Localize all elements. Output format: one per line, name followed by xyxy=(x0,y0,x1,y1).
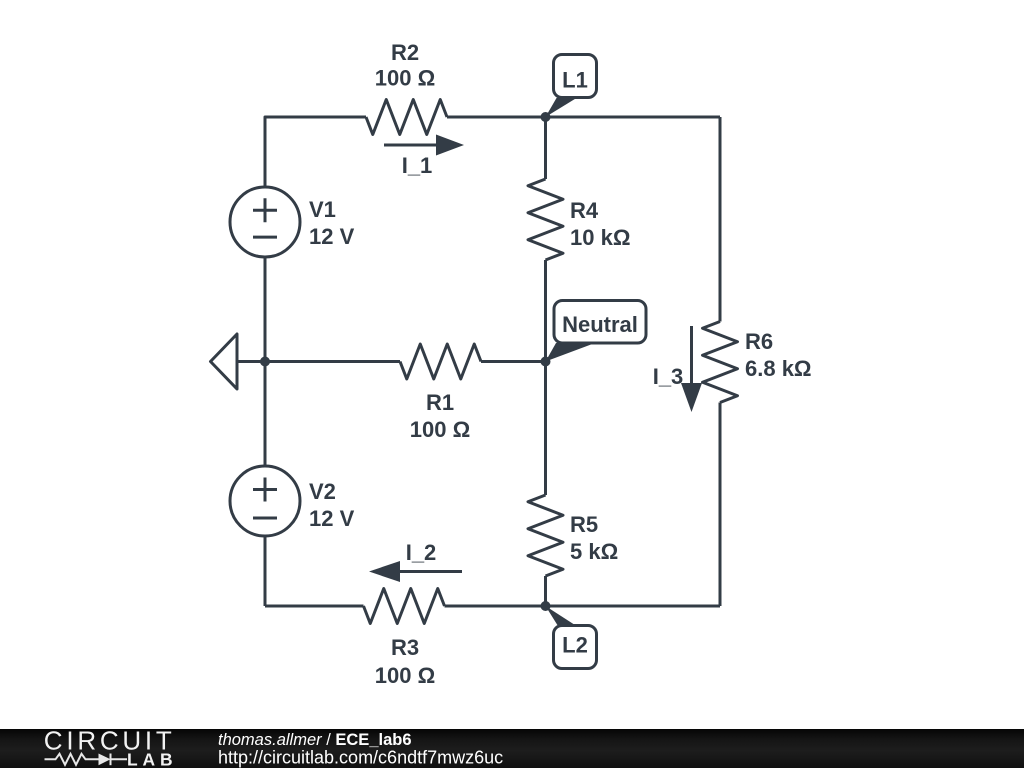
node ground xyxy=(260,357,270,367)
voltage source V1 xyxy=(230,187,300,257)
node L2 xyxy=(541,601,551,611)
svg-text:5 kΩ: 5 kΩ xyxy=(570,539,618,564)
svg-text:100 Ω: 100 Ω xyxy=(375,66,435,91)
svg-text:R1: R1 xyxy=(426,390,454,415)
svg-text:R4: R4 xyxy=(570,198,599,223)
voltage source V2 xyxy=(230,466,300,536)
CircuitLab logo squiggle resistor and diode xyxy=(45,754,128,766)
svg-text:12 V: 12 V xyxy=(309,506,355,531)
wire R5 to L2 node xyxy=(544,576,547,606)
resistor R4 xyxy=(528,179,563,260)
wire V2 bottom to bottom rail xyxy=(264,536,267,606)
current arrow I_1 xyxy=(384,144,436,147)
svg-text:Neutral: Neutral xyxy=(562,312,638,337)
node label L2 xyxy=(546,606,597,669)
svg-text:100 Ω: 100 Ω xyxy=(410,417,470,442)
resistor R1 xyxy=(400,344,481,379)
wire middle vertical upper xyxy=(544,117,547,179)
wire bottom right xyxy=(445,605,721,608)
svg-text:100 Ω: 100 Ω xyxy=(375,663,435,688)
wire R1 to Neutral node xyxy=(481,360,546,363)
svg-text:I_1: I_1 xyxy=(402,153,433,178)
wire bottom left xyxy=(265,605,364,608)
svg-text:10 kΩ: 10 kΩ xyxy=(570,225,630,250)
node label L1 xyxy=(546,55,597,118)
svg-text:L1: L1 xyxy=(562,68,588,93)
resistor R3 xyxy=(364,589,445,624)
svg-text:R6: R6 xyxy=(745,329,773,354)
svg-text:I_2: I_2 xyxy=(406,540,437,565)
svg-text:V2: V2 xyxy=(309,479,336,504)
wire left rail between V1 and V2 xyxy=(264,257,267,466)
svg-text:12 V: 12 V xyxy=(309,224,355,249)
svg-text:R3: R3 xyxy=(391,635,419,660)
svg-text:thomas.allmer / ECE_lab6: thomas.allmer / ECE_lab6 xyxy=(218,731,412,749)
wire R4 to Neutral node xyxy=(544,260,547,362)
resistor R5 xyxy=(528,495,563,576)
current arrow I_3 xyxy=(690,326,693,385)
wire top left from V1 to R2 xyxy=(265,117,366,187)
wire Neutral to R5 xyxy=(544,362,547,496)
svg-text:LAB: LAB xyxy=(127,749,173,768)
node label Neutral xyxy=(546,301,647,362)
svg-text:R5: R5 xyxy=(570,512,598,537)
svg-text:R2: R2 xyxy=(391,40,419,65)
wire right rail upper xyxy=(719,117,722,322)
wire right rail lower xyxy=(719,403,722,607)
svg-text:I_3: I_3 xyxy=(653,364,684,389)
ground xyxy=(211,334,238,389)
resistor R2 xyxy=(366,100,447,135)
node Neutral xyxy=(541,357,551,367)
svg-text:L2: L2 xyxy=(562,633,588,658)
svg-text:6.8 kΩ: 6.8 kΩ xyxy=(745,356,812,381)
svg-text:http://circuitlab.com/c6ndtf7m: http://circuitlab.com/c6ndtf7mwz6uc xyxy=(218,748,503,768)
footer bar xyxy=(0,729,1024,768)
current arrow I_2 xyxy=(400,570,462,573)
wire ground to R1 xyxy=(237,360,400,363)
svg-text:V1: V1 xyxy=(309,197,336,222)
node L1 xyxy=(541,112,551,122)
wire top right from R2 to right rail xyxy=(447,116,720,119)
resistor R6 xyxy=(703,322,738,403)
